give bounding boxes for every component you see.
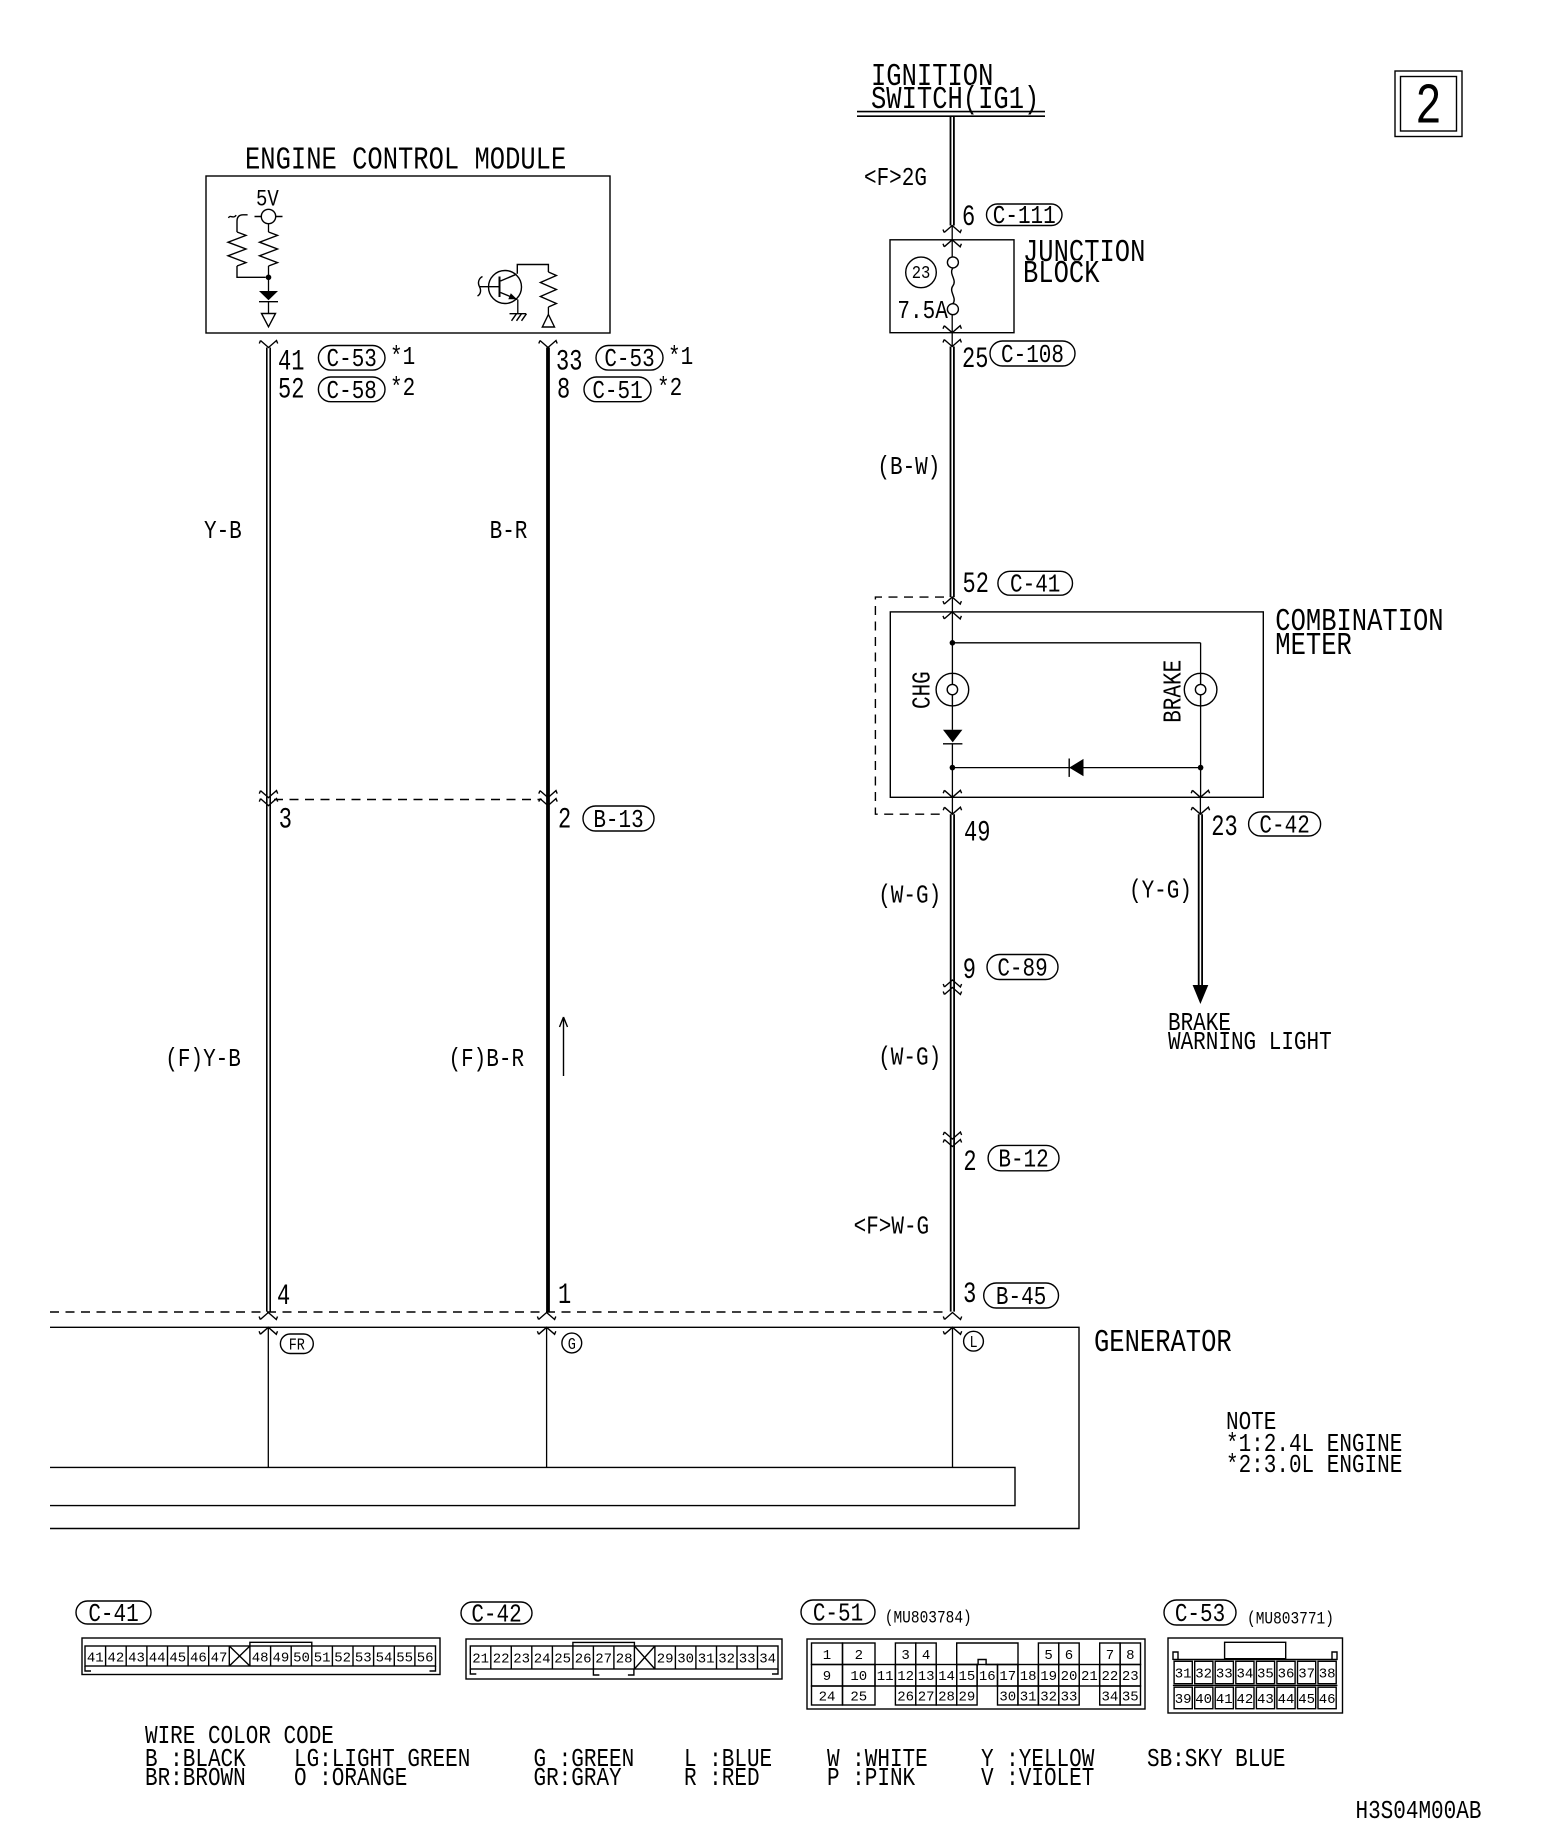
svg-text:29: 29	[657, 1652, 674, 1668]
svg-text:6: 6	[1065, 1648, 1073, 1664]
svg-text:5: 5	[1044, 1648, 1052, 1664]
wire R2 bottom	[268, 266, 270, 277]
connector arrow node 2 lower	[539, 799, 557, 806]
svg-text:31: 31	[1020, 1690, 1037, 1706]
arrowhead to brake warning light	[1193, 985, 1209, 1004]
CHG warning lamp	[936, 673, 969, 706]
svg-text:25: 25	[554, 1652, 571, 1668]
svg-text:35: 35	[1257, 1667, 1274, 1683]
connector arrow C-41 upper	[943, 597, 961, 604]
svg-text:C-41: C-41	[88, 1601, 138, 1629]
svg-text:C-51: C-51	[813, 1601, 863, 1629]
connector arrow FR lower	[259, 1327, 277, 1334]
wire W-G (double line)	[951, 814, 954, 1311]
wire into junction block	[951, 226, 953, 257]
svg-text:B-45: B-45	[996, 1284, 1046, 1312]
connector label B-13	[583, 806, 654, 836]
svg-text:METER: METER	[1275, 628, 1351, 664]
svg-text:1: 1	[823, 1648, 831, 1664]
svg-text:ENGINE CONTROL MODULE: ENGINE CONTROL MODULE	[245, 142, 566, 178]
svg-text:G: G	[568, 1335, 576, 1355]
svg-text:27: 27	[595, 1652, 612, 1668]
connector arrow L lower	[943, 1327, 961, 1334]
connector arrow junction block entry	[943, 240, 961, 247]
wire CHG lamp to diode D2	[951, 706, 953, 730]
svg-text:23: 23	[513, 1652, 530, 1668]
svg-text:32: 32	[718, 1652, 735, 1668]
connector table C-41	[82, 1638, 440, 1675]
svg-text:4: 4	[277, 1279, 290, 1313]
svg-text:45: 45	[1298, 1692, 1315, 1708]
wire Y-B (double line)	[267, 348, 270, 1312]
svg-text:39: 39	[1175, 1692, 1192, 1708]
connector table C-42	[466, 1639, 782, 1679]
svg-text:31: 31	[1175, 1667, 1192, 1683]
svg-text:(W-G): (W-G)	[878, 883, 941, 911]
svg-text:32: 32	[1040, 1690, 1057, 1706]
connector table C-53	[1168, 1638, 1343, 1713]
svg-text:SWITCH(IG1): SWITCH(IG1)	[871, 82, 1039, 118]
svg-text:30: 30	[999, 1690, 1016, 1706]
svg-text:3: 3	[901, 1648, 909, 1664]
connector table C-51	[807, 1639, 1145, 1709]
svg-text:R :RED: R :RED	[684, 1765, 760, 1793]
svg-text:(MU803784): (MU803784)	[885, 1608, 972, 1628]
svg-text:46: 46	[1319, 1692, 1336, 1708]
svg-text:9: 9	[823, 1669, 831, 1685]
svg-text:13: 13	[918, 1669, 935, 1685]
svg-text:*2: *2	[390, 375, 415, 403]
generator box	[50, 1327, 1079, 1528]
connector arrow C-108	[943, 340, 961, 347]
svg-text:(MU803771): (MU803771)	[1247, 1609, 1334, 1629]
svg-text:26: 26	[575, 1652, 592, 1668]
svg-text:C-89: C-89	[997, 956, 1047, 984]
connector label C-111	[987, 203, 1063, 231]
svg-text:28: 28	[938, 1690, 955, 1706]
svg-text:V :VIOLET: V :VIOLET	[981, 1765, 1094, 1793]
svg-text:45: 45	[169, 1651, 186, 1667]
svg-text:2: 2	[1415, 77, 1441, 141]
svg-text:10: 10	[850, 1669, 867, 1685]
connector label C-53 (*1)	[318, 346, 385, 375]
svg-text:3: 3	[963, 1277, 976, 1311]
svg-text:36: 36	[1278, 1667, 1295, 1683]
svg-text:42: 42	[1236, 1692, 1253, 1708]
svg-text:C-53: C-53	[604, 347, 654, 375]
junction node meter top	[950, 640, 956, 646]
svg-text:7.5A: 7.5A	[897, 298, 948, 326]
svg-text:37: 37	[1298, 1667, 1315, 1683]
svg-text:CHG: CHG	[910, 671, 938, 709]
svg-text:SB:SKY BLUE: SB:SKY BLUE	[1147, 1746, 1286, 1774]
wire Y-G (double line)	[1199, 814, 1202, 985]
ECM pin triangle (lamp driver output)	[542, 315, 554, 328]
svg-text:O :ORANGE: O :ORANGE	[294, 1765, 407, 1793]
svg-text:C-53: C-53	[327, 347, 377, 375]
transistor Q1	[480, 271, 522, 304]
svg-text:C-41: C-41	[1010, 572, 1060, 600]
svg-text:44: 44	[1278, 1692, 1295, 1708]
svg-text:50: 50	[293, 1651, 310, 1667]
connector label B-45	[984, 1283, 1059, 1313]
ECM pin triangle (sensor output)	[262, 314, 276, 327]
generator internal bus bar	[50, 1467, 1015, 1505]
svg-text:21: 21	[472, 1652, 489, 1668]
svg-text:25: 25	[850, 1690, 867, 1706]
svg-text:21: 21	[1081, 1669, 1098, 1685]
svg-text:WARNING LIGHT: WARNING LIGHT	[1168, 1029, 1332, 1057]
svg-text:<F>2G: <F>2G	[864, 165, 927, 193]
svg-text:B-R: B-R	[490, 518, 528, 546]
svg-text:18: 18	[1020, 1669, 1037, 1685]
connector arrow ECM pin 41/52	[259, 341, 277, 348]
junction node meter lower left	[950, 765, 956, 771]
svg-text:2: 2	[855, 1648, 863, 1664]
connector table label C-41	[76, 1601, 151, 1630]
connector arrow C-89 lower	[943, 988, 961, 995]
svg-text:28: 28	[616, 1652, 633, 1668]
ground symbol (ECM internal)	[510, 314, 527, 321]
diode D1 (zener to pin)	[259, 291, 278, 302]
svg-text:*2:3.0L ENGINE: *2:3.0L ENGINE	[1226, 1452, 1402, 1480]
wire FR terminal	[267, 1327, 269, 1467]
wire R3 to pin triangle	[547, 307, 549, 315]
ignition switch bus double line	[857, 112, 1045, 117]
svg-text:52: 52	[278, 372, 304, 406]
svg-text:7: 7	[1106, 1648, 1114, 1664]
wire meter exit left stub	[951, 797, 953, 814]
engine control module box U1	[206, 176, 610, 333]
connector arrow G lower	[537, 1327, 555, 1334]
wire B-R (thick)	[546, 348, 550, 1312]
fuse number 23 circle	[906, 257, 937, 288]
svg-text:FR: FR	[289, 1335, 305, 1355]
combination meter dashed outline	[875, 597, 944, 814]
svg-text:31: 31	[698, 1652, 715, 1668]
svg-text:(W-G): (W-G)	[878, 1045, 941, 1073]
svg-text:8: 8	[1126, 1648, 1134, 1664]
svg-text:49: 49	[272, 1651, 289, 1667]
svg-text:BRAKE: BRAKE	[1161, 660, 1189, 723]
svg-text:12: 12	[897, 1669, 914, 1685]
terminal G	[562, 1333, 582, 1354]
svg-text:H3S04M00AB: H3S04M00AB	[1356, 1798, 1482, 1826]
junction block box	[890, 240, 1014, 333]
svg-text:1: 1	[558, 1278, 571, 1312]
wire meter internal left top	[951, 597, 953, 673]
svg-text:46: 46	[190, 1651, 207, 1667]
wire ignition to C-111	[951, 117, 954, 226]
svg-text:B-12: B-12	[998, 1147, 1048, 1175]
svg-text:44: 44	[149, 1651, 166, 1667]
connector label C-41	[998, 571, 1073, 600]
svg-text:29: 29	[958, 1690, 975, 1706]
wire meter exit right stub	[1199, 797, 1201, 814]
svg-text:(B-W): (B-W)	[877, 454, 940, 482]
svg-text:Y-B: Y-B	[204, 518, 242, 546]
svg-text:52: 52	[334, 1651, 351, 1667]
svg-text:53: 53	[355, 1651, 372, 1667]
svg-text:33: 33	[739, 1652, 756, 1668]
BRAKE warning lamp	[1184, 673, 1217, 706]
connector label C-51 (*2)	[584, 377, 651, 406]
svg-text:B-13: B-13	[593, 807, 643, 835]
connector arrow C-111 upper	[943, 226, 961, 233]
svg-text:23: 23	[1211, 810, 1237, 844]
svg-text:*1: *1	[668, 344, 693, 372]
svg-text:BLOCK: BLOCK	[1023, 256, 1100, 292]
svg-text:27: 27	[918, 1690, 935, 1706]
svg-text:C-108: C-108	[1001, 342, 1064, 370]
wire meter internal lower horizontal	[952, 767, 1200, 769]
svg-text:23: 23	[1122, 1669, 1139, 1685]
svg-text:17: 17	[999, 1669, 1016, 1685]
svg-text:19: 19	[1040, 1669, 1057, 1685]
terminal L	[964, 1331, 984, 1352]
collector wire of Q1	[517, 265, 548, 274]
svg-text:C-42: C-42	[1259, 813, 1309, 841]
connector arrow C-42 upper	[1191, 790, 1209, 797]
svg-text:38: 38	[1319, 1667, 1336, 1683]
5V power source symbol	[255, 209, 283, 223]
svg-text:25: 25	[962, 342, 988, 376]
svg-text:30: 30	[677, 1652, 694, 1668]
resistor R2	[260, 232, 278, 266]
connector arrow FR upper	[259, 1313, 277, 1320]
connector arrow B-12 lower	[943, 1140, 961, 1147]
connector table label C-42	[461, 1602, 532, 1630]
svg-text:GR:GRAY: GR:GRAY	[534, 1765, 622, 1793]
connector arrow G upper	[537, 1313, 555, 1320]
connector arrow meter exit 49 upper	[943, 790, 961, 797]
terminal FR	[280, 1334, 313, 1355]
svg-text:34: 34	[1236, 1667, 1253, 1683]
wire fuse to C-108	[951, 315, 953, 347]
svg-text:2: 2	[963, 1145, 976, 1179]
hook lead of resistor R1	[229, 215, 248, 232]
svg-text:48: 48	[252, 1651, 269, 1667]
svg-text:40: 40	[1195, 1692, 1212, 1708]
connector label C-53 (*1) right	[596, 346, 663, 375]
junction node R1-R2	[266, 275, 272, 281]
svg-text:33: 33	[1061, 1690, 1078, 1706]
svg-text:49: 49	[964, 815, 990, 849]
svg-text:4: 4	[922, 1648, 930, 1664]
connector label C-108	[990, 341, 1075, 371]
svg-text:14: 14	[938, 1669, 955, 1685]
svg-text:9: 9	[963, 953, 976, 987]
connector arrow C-41 lower	[943, 612, 961, 619]
wire BRAKE lamp to meter exit right	[1200, 706, 1202, 797]
svg-text:24: 24	[819, 1690, 836, 1706]
junction node meter lower right	[1198, 765, 1204, 771]
base hook lead of Q1	[478, 277, 483, 297]
svg-text:L: L	[969, 1333, 977, 1353]
connector table label C-53	[1164, 1600, 1236, 1630]
svg-text:51: 51	[314, 1651, 331, 1667]
connector arrow node 3 upper	[259, 791, 277, 798]
svg-text:C-111: C-111	[993, 203, 1056, 231]
connector arrow node 3 lower	[259, 799, 277, 806]
svg-text:BR:BROWN: BR:BROWN	[145, 1765, 246, 1793]
svg-text:32: 32	[1195, 1667, 1212, 1683]
svg-text:41: 41	[87, 1651, 104, 1667]
wire D2 to meter exit left	[951, 744, 953, 798]
svg-text:34: 34	[759, 1652, 776, 1668]
svg-text:35: 35	[1122, 1690, 1139, 1706]
svg-text:P :PINK: P :PINK	[827, 1765, 916, 1793]
wire L terminal	[952, 1327, 954, 1467]
resistor R1	[228, 232, 246, 266]
combination meter box	[890, 612, 1263, 797]
svg-text:56: 56	[417, 1651, 434, 1667]
svg-text:26: 26	[897, 1690, 914, 1706]
svg-text:(F)B-R: (F)B-R	[449, 1046, 525, 1074]
svg-text:24: 24	[534, 1652, 551, 1668]
svg-text:<F>W-G: <F>W-G	[854, 1214, 930, 1242]
flow arrow beside wire B-R	[560, 1017, 568, 1076]
svg-text:11: 11	[877, 1669, 894, 1685]
svg-text:42: 42	[107, 1651, 124, 1667]
connector arrow junction block exit	[943, 326, 961, 333]
resistor R3	[540, 272, 556, 307]
dashed harness boundary line generator	[50, 1311, 945, 1313]
diode D2 (below CHG lamp)	[943, 730, 962, 744]
svg-text:*2: *2	[657, 375, 682, 403]
svg-text:33: 33	[1216, 1667, 1233, 1683]
svg-text:C-53: C-53	[1175, 1601, 1225, 1629]
svg-text:*1: *1	[390, 344, 415, 372]
svg-text:52: 52	[963, 567, 989, 601]
fuse F23 symbol	[947, 257, 958, 315]
svg-text:(F)Y-B: (F)Y-B	[165, 1046, 241, 1074]
wire R1 bottom to junction	[237, 266, 266, 277]
svg-text:2: 2	[558, 802, 571, 836]
wire D1 to pin triangle	[268, 302, 270, 314]
svg-text:(Y-G): (Y-G)	[1129, 878, 1192, 906]
svg-text:C-42: C-42	[471, 1602, 521, 1630]
svg-text:GENERATOR: GENERATOR	[1094, 1325, 1232, 1361]
connector arrow ECM pin 33/8	[539, 341, 557, 348]
dashed harness boundary line B-13	[274, 799, 542, 801]
connector arrow C-89 upper	[943, 980, 961, 987]
svg-text:C-58: C-58	[327, 378, 377, 406]
connector table label C-51	[801, 1600, 875, 1629]
svg-text:C-51: C-51	[592, 378, 642, 406]
wire B-W (double line)	[951, 347, 954, 598]
diode D3 (in lower horizontal wire)	[1069, 759, 1083, 777]
svg-text:55: 55	[396, 1651, 413, 1667]
connector label B-12	[988, 1145, 1059, 1175]
connector label C-58 (*2)	[318, 377, 385, 406]
connector label C-89	[987, 955, 1058, 985]
svg-text:41: 41	[1216, 1692, 1233, 1708]
page number box 2	[1395, 71, 1462, 140]
svg-text:43: 43	[128, 1651, 145, 1667]
svg-text:22: 22	[493, 1652, 510, 1668]
svg-text:43: 43	[1257, 1692, 1274, 1708]
wire junction to diode D1	[268, 277, 270, 291]
svg-text:6: 6	[962, 200, 975, 234]
svg-text:15: 15	[958, 1669, 975, 1685]
wire 5V to resistor R2	[268, 224, 270, 232]
svg-text:3: 3	[279, 802, 292, 836]
connector arrow meter exit 49 lower	[943, 807, 961, 814]
svg-text:23: 23	[912, 264, 931, 285]
connector arrow B-12 upper	[943, 1132, 961, 1139]
connector arrow node 2 upper	[539, 791, 557, 798]
connector arrow L upper	[943, 1313, 961, 1320]
svg-text:47: 47	[211, 1651, 228, 1667]
wire G terminal	[546, 1327, 548, 1467]
svg-text:16: 16	[979, 1669, 996, 1685]
wire to BRAKE lamp	[1200, 643, 1202, 674]
emitter wire of Q1 to ground	[517, 300, 519, 314]
connector label C-42	[1249, 812, 1321, 841]
svg-text:22: 22	[1101, 1669, 1118, 1685]
svg-text:54: 54	[376, 1651, 393, 1667]
connector arrow C-42 lower	[1191, 807, 1209, 814]
wire meter internal top horizontal	[952, 642, 1200, 644]
svg-text:20: 20	[1061, 1669, 1078, 1685]
svg-text:34: 34	[1101, 1690, 1118, 1706]
svg-text:8: 8	[557, 372, 570, 406]
